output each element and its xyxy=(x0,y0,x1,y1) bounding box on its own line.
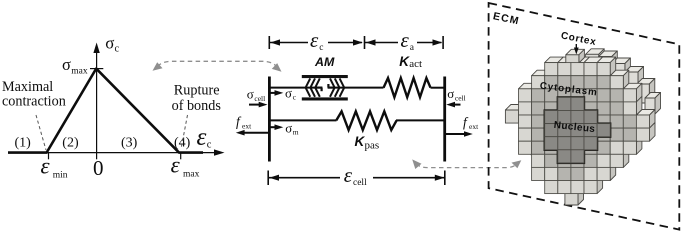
svg-text:(3): (3) xyxy=(121,135,138,150)
svg-text:ε: ε xyxy=(310,28,319,52)
svg-text:c: c xyxy=(207,140,212,151)
annotation gray dashed arrow model-to-cell xyxy=(412,159,521,169)
svg-text:ε: ε xyxy=(344,163,353,187)
svg-text:AM: AM xyxy=(314,55,335,69)
actomyosin element AM xyxy=(302,75,348,101)
svg-text:0: 0 xyxy=(93,156,104,180)
svg-text:σ: σ xyxy=(285,120,292,135)
svg-text:σ: σ xyxy=(285,85,292,100)
arrow sigma_cell left xyxy=(249,102,268,108)
svg-text:ε: ε xyxy=(401,28,410,52)
wire wall to spring K_pas xyxy=(269,119,336,121)
svg-text:σ: σ xyxy=(447,86,454,101)
arrow sigma_m xyxy=(270,124,283,130)
cytoplasm region outline xyxy=(531,75,638,182)
wire wall to AM xyxy=(269,87,316,89)
svg-text:of bonds: of bonds xyxy=(172,98,222,114)
tick below axis at epsilon_max xyxy=(180,153,182,159)
svg-text:c: c xyxy=(115,43,120,54)
wire spring to right wall xyxy=(431,87,445,89)
svg-text:cell: cell xyxy=(455,94,466,103)
svg-text:c: c xyxy=(319,43,323,53)
ECM boundary dashed parallelogram xyxy=(489,3,680,230)
arrow f_ext right xyxy=(446,131,473,137)
stress-strain curve (triangle) xyxy=(8,69,203,153)
svg-text:cell: cell xyxy=(353,178,367,188)
spring K_act xyxy=(384,78,431,97)
nucleus cells xyxy=(545,97,610,163)
bottom protruding cube xyxy=(565,187,584,206)
svg-text:ε: ε xyxy=(197,124,207,151)
annotation gray dashed arrow model-to-graph xyxy=(153,61,282,72)
pointer cortex arrow xyxy=(574,44,579,55)
svg-text:σ: σ xyxy=(105,33,114,52)
svg-text:(2): (2) xyxy=(62,135,79,150)
svg-text:a: a xyxy=(410,43,415,53)
dimension epsilon_a (top right) xyxy=(365,36,444,49)
svg-text:contraction: contraction xyxy=(2,93,66,109)
wire AM to spring K_act xyxy=(334,87,384,89)
svg-text:ε: ε xyxy=(171,153,181,178)
wire spring to right wall (bottom) xyxy=(396,119,445,121)
spring K_pas xyxy=(336,111,396,130)
cortex protruding cube (top, pointer target) xyxy=(566,49,585,63)
svg-text:pas: pas xyxy=(365,140,380,152)
tick sigma_max at peak xyxy=(90,68,103,70)
svg-text:σ: σ xyxy=(247,87,254,102)
cell voxel back cubes (top-right bumps) xyxy=(586,49,661,114)
svg-text:ε: ε xyxy=(41,153,51,178)
wall left xyxy=(268,77,271,162)
cell voxel right side faces xyxy=(597,57,655,194)
svg-text:ext: ext xyxy=(242,122,252,131)
cell voxel front faces grid xyxy=(519,63,650,194)
y-axis sigma_c xyxy=(93,43,99,160)
cell voxel top faces xyxy=(519,57,656,115)
svg-text:ext: ext xyxy=(469,122,479,131)
arrow sigma_c xyxy=(270,90,283,96)
left protruding cube xyxy=(505,105,524,124)
svg-text:ECM: ECM xyxy=(492,10,521,27)
wall right xyxy=(443,77,446,162)
svg-text:act: act xyxy=(409,58,422,70)
svg-text:max: max xyxy=(71,67,88,77)
svg-text:(1): (1) xyxy=(15,135,32,150)
x-axis epsilon_c xyxy=(8,149,225,155)
arrow sigma_cell right xyxy=(446,102,460,108)
svg-text:Cortex: Cortex xyxy=(560,30,597,48)
svg-text:cell: cell xyxy=(254,94,265,103)
svg-text:σ: σ xyxy=(62,55,71,74)
arrow f_ext left xyxy=(236,130,268,136)
dimension epsilon_cell (bottom) xyxy=(268,171,445,186)
leader dashed to epsilon_min xyxy=(36,115,46,150)
dimension epsilon_c (top left) xyxy=(269,36,363,49)
svg-text:max: max xyxy=(183,170,200,180)
svg-text:(4): (4) xyxy=(174,135,191,150)
nucleus region outline xyxy=(544,96,612,164)
svg-text:m: m xyxy=(293,128,299,137)
svg-text:min: min xyxy=(53,170,68,180)
svg-text:Rupture: Rupture xyxy=(174,82,220,98)
leader dashed to epsilon_max xyxy=(181,115,188,149)
svg-text:c: c xyxy=(293,93,297,102)
tick below axis at epsilon_min xyxy=(48,153,50,159)
